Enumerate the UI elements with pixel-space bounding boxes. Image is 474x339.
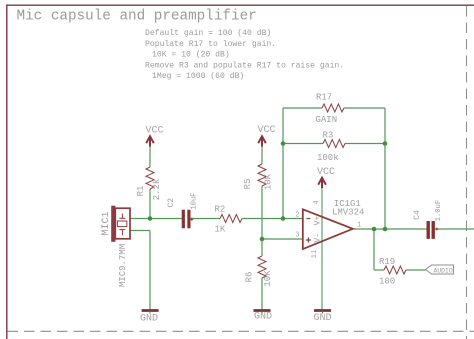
wire node B to op-amp pin 3 [262, 238, 303, 240]
svg-text:VCC: VCC [317, 167, 335, 178]
svg-text:MIC1: MIC1 [101, 211, 112, 235]
svg-text:3: 3 [295, 232, 299, 240]
wire corner to R19 left [374, 269, 384, 271]
wire mic bottom pin horizontal [130, 230, 150, 232]
junction R3 right [383, 141, 388, 146]
svg-text:100k: 100k [317, 153, 339, 163]
op-amp U1 triangle [303, 209, 353, 249]
svg-text:Default gain = 100 (40 dB): Default gain = 100 (40 dB) [145, 29, 271, 38]
svg-text:100: 100 [379, 276, 395, 286]
svg-text:GAIN: GAIN [316, 115, 338, 125]
svg-text:LMV324: LMV324 [332, 208, 364, 218]
wire output drop to R19 [373, 229, 375, 270]
svg-text:R2: R2 [215, 205, 226, 215]
svg-text:1K: 1K [215, 225, 226, 235]
VCC symbol above R1 [146, 136, 154, 146]
wire node A to C2 left [150, 218, 182, 220]
wire mic top pin to node A [130, 218, 150, 220]
svg-text:R3: R3 [323, 131, 334, 141]
wire op-amp output to C4 [353, 228, 427, 230]
svg-text:R6: R6 [245, 272, 255, 283]
junction pin2/feedback [281, 216, 286, 221]
svg-text:R17: R17 [316, 93, 332, 103]
resistor R5 body [258, 164, 266, 186]
junction node A (C2/R1/mic) [148, 216, 153, 221]
svg-text:AUDIO: AUDIO [434, 267, 453, 274]
resistor R2 body [220, 215, 242, 223]
wire op-amp pin 4 to VCC and pin 11 to GND [321, 185, 323, 310]
svg-text:R5: R5 [243, 179, 253, 190]
svg-text:MIC9.7MM: MIC9.7MM [118, 244, 128, 287]
junction R3 left [281, 141, 286, 146]
capacitor C2 plates [182, 210, 190, 228]
svg-text:4: 4 [313, 200, 321, 204]
svg-text:GND: GND [313, 313, 331, 324]
wire R6 bottom to GND [261, 278, 263, 310]
wire R1 bottom to node A [149, 189, 151, 219]
wire VCC to R5 top [261, 144, 263, 164]
resistor R17 body [322, 104, 344, 112]
capacitor C2 plus mark [190, 218, 193, 221]
svg-text:Mic capsule and preamplifier: Mic capsule and preamplifier [17, 9, 257, 25]
sheet frame dashed right [466, 6, 468, 339]
resistor R3 body [323, 140, 345, 148]
svg-text:C4: C4 [413, 210, 422, 220]
op-amp plus mark [306, 238, 311, 243]
svg-text:GND: GND [254, 312, 272, 323]
ground below mic [142, 309, 159, 312]
wire R3 left lead [283, 143, 323, 145]
svg-text:R1: R1 [136, 186, 146, 197]
svg-text:V-: V- [314, 233, 323, 243]
wire mic to GND vertical [149, 231, 151, 310]
wire C4 right to sheet edge [434, 228, 474, 230]
svg-text:Remove R3 and populate R17 to: Remove R3 and populate R17 to raise gain… [145, 61, 344, 70]
capacitor C4 plus mark [435, 228, 438, 231]
wire R17 right lead [344, 107, 385, 109]
junction output/feedback [383, 227, 388, 232]
junction node B (R5/R6/pin3) [260, 237, 265, 242]
svg-text:10K: 10K [264, 173, 274, 190]
svg-text:2: 2 [295, 212, 299, 220]
microphone MIC1 symbol [112, 206, 131, 242]
svg-text:1Meg = 1000 (60 dB): 1Meg = 1000 (60 dB) [152, 72, 244, 81]
capacitor C4 plates [427, 221, 435, 238]
wire C2 right to R2 left [191, 218, 221, 220]
svg-text:1: 1 [357, 222, 361, 230]
resistor R6 body [258, 256, 266, 278]
ground below R6 [254, 309, 271, 312]
wire R5 bottom through node B to R6 top [261, 186, 263, 256]
sheet frame dashed bottom [8, 330, 474, 332]
svg-text:10K: 10K [263, 270, 273, 287]
VCC symbol above op-amp pin 4 [318, 178, 326, 188]
wire R17 left lead [283, 107, 322, 109]
junction output/R19 [372, 227, 377, 232]
svg-text:11: 11 [311, 250, 319, 258]
svg-text:R19: R19 [379, 257, 395, 267]
sheet border left [6, 5, 8, 339]
ground below op-amp pin 11 [314, 309, 331, 312]
svg-text:Populate R17 to lower gain.: Populate R17 to lower gain. [145, 40, 276, 49]
svg-text:GND: GND [140, 313, 158, 324]
svg-text:10uF: 10uF [191, 192, 199, 209]
wire feedback right vertical [384, 108, 386, 229]
svg-text:C2: C2 [167, 198, 176, 208]
wire R19 right to AUDIO tag [406, 269, 426, 271]
resistor R1 body [146, 167, 154, 189]
svg-text:VCC: VCC [257, 125, 275, 136]
wire R3 right lead [345, 143, 385, 145]
resistor R19 body [384, 266, 406, 274]
svg-text:1.0uF: 1.0uF [435, 200, 443, 222]
VCC symbol above R5 [258, 136, 266, 146]
AUDIO net tag [426, 265, 454, 274]
svg-text:2.2k: 2.2k [152, 179, 162, 201]
op-amp minus mark [307, 218, 311, 220]
wire VCC to R1 top [149, 144, 151, 167]
svg-text:V+: V+ [314, 216, 323, 226]
svg-text:VCC: VCC [145, 125, 163, 136]
wire R2 right to op-amp pin 2 [242, 218, 303, 220]
wire feedback left vertical [282, 108, 284, 219]
svg-text:10K = 10 (20 dB): 10K = 10 (20 dB) [152, 51, 230, 60]
sheet border top [6, 4, 474, 6]
